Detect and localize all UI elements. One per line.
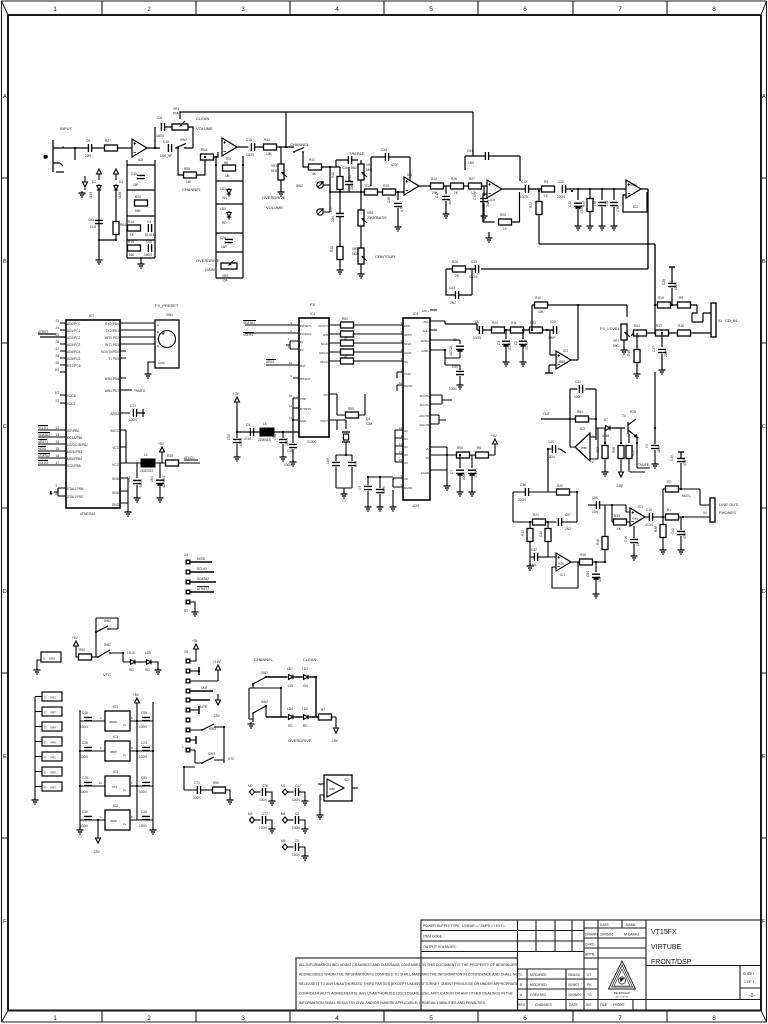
svg-text:4580: 4580: [110, 819, 117, 823]
capacitor C13: [469, 260, 479, 279]
wire node channel: [255, 146, 294, 148]
IC1a plus wire: [612, 505, 630, 512]
svg-text:C82: C82: [227, 434, 231, 440]
pot VR3 overdrive volume: [271, 147, 287, 196]
supply -15V X5: [213, 694, 221, 718]
svg-text:MOSI/PB3: MOSI/PB3: [67, 450, 82, 454]
svg-text:C40: C40: [548, 440, 554, 444]
capacitor C45: [131, 172, 145, 187]
svg-text:VDC7: VDC7: [67, 402, 76, 406]
svg-text:DL4148: DL4148: [145, 233, 156, 237]
codec left pin wires upper: [354, 325, 404, 391]
capacitor C9: [85, 139, 92, 158]
svg-text:12: 12: [289, 361, 293, 365]
title block: [421, 920, 761, 1011]
svg-text:22N: 22N: [85, 154, 92, 158]
svg-text:X1: X1: [718, 319, 722, 323]
svg-text:IC1: IC1: [113, 705, 118, 709]
IC IC2d box: [317, 775, 359, 819]
resistor R32 vertical: [521, 522, 533, 557]
svg-text:SW2: SW2: [261, 671, 268, 675]
svg-text:VDC6: VDC6: [67, 394, 76, 398]
svg-text:R14: R14: [128, 220, 134, 224]
svg-text:C5: C5: [295, 839, 299, 843]
svg-text:LD7: LD7: [287, 667, 293, 671]
connector X3: [184, 553, 216, 613]
svg-text:DATE: DATE: [569, 1003, 579, 1007]
svg-text:C41: C41: [575, 380, 581, 384]
capacitor C12: [520, 180, 529, 199]
svg-text:15: 15: [399, 450, 403, 454]
svg-text:AD4/PC4: AD4/PC4: [67, 350, 81, 354]
svg-text:1M: 1M: [225, 174, 230, 178]
svg-text:R33: R33: [614, 514, 620, 518]
svg-text:MCLK: MCLK: [320, 360, 328, 364]
svg-text:+15V: +15V: [213, 660, 221, 664]
svg-text:28: 28: [55, 354, 59, 358]
IC IC2c 4580: [100, 804, 133, 830]
svg-text:R9: R9: [679, 296, 683, 300]
resistor R43: [264, 138, 277, 156]
svg-text:47: 47: [344, 337, 348, 341]
svg-text:10A: 10A: [222, 279, 229, 283]
svg-text:R4: R4: [544, 180, 548, 184]
svg-text:R10: R10: [535, 296, 541, 300]
svg-text:C58: C58: [287, 449, 293, 453]
svg-text:BASS: BASS: [376, 215, 387, 220]
svg-text:R11: R11: [511, 321, 517, 325]
resistor R58 vertical: [596, 443, 609, 476]
capacitor C46: [144, 240, 152, 257]
svg-text:4580: 4580: [329, 787, 335, 791]
svg-text:APPR.: APPR.: [585, 953, 595, 957]
svg-text:A: A: [762, 94, 766, 100]
svg-text:-15V: -15V: [213, 714, 221, 718]
resistor R40 vertical: [331, 167, 343, 192]
svg-text:MODIFIED: MODIFIED: [530, 973, 547, 977]
capacitor C41 100P: [574, 380, 583, 399]
tbar pin7: [190, 706, 199, 714]
svg-text:FRONT: FRONT: [613, 1003, 625, 1007]
svg-text:100N: 100N: [139, 755, 147, 759]
svg-text:4580: 4580: [110, 750, 117, 754]
wire switch to R41: [303, 152, 309, 167]
pad M3: [248, 812, 260, 823]
svg-text:JUST LISTEN: JUST LISTEN: [616, 997, 629, 999]
DSP pin stubs: [290, 325, 340, 420]
svg-text:R15: R15: [128, 240, 134, 244]
wire main to IC2: [566, 188, 626, 190]
svg-text:C36: C36: [520, 483, 526, 487]
svg-text:C71: C71: [194, 781, 200, 785]
row wires: [80, 721, 153, 820]
capacitor C40b 470P: [671, 517, 687, 554]
svg-text:SW1: SW1: [49, 657, 56, 661]
svg-text:R40: R40: [331, 172, 335, 178]
svg-text:29: 29: [55, 361, 59, 365]
svg-text:10M: 10M: [366, 422, 373, 426]
svg-text:AINR-: AINR-: [421, 349, 429, 353]
capacitor C43 2N2: [449, 286, 459, 305]
svg-text:VR2: VR2: [50, 696, 56, 700]
svg-text:C56: C56: [592, 496, 598, 500]
svg-text:10N: 10N: [592, 510, 599, 514]
svg-text:R43: R43: [264, 138, 270, 142]
ground bar plus input: [545, 372, 553, 374]
svg-text:DGND: DGND: [404, 384, 412, 388]
svg-text:FX_LEVEL: FX_LEVEL: [600, 326, 621, 331]
resistor R49 to gnd: [582, 189, 594, 230]
svg-text:XTAL2 PB7: XTAL2 PB7: [67, 495, 84, 499]
svg-text:ATRST: ATRST: [38, 330, 48, 334]
svg-text:4580: 4580: [558, 360, 565, 364]
svg-text:C61: C61: [88, 218, 94, 222]
supply +5V block: [133, 693, 140, 721]
capacitor C20b 220P: [548, 320, 557, 340]
wire codec vd bracket: [368, 477, 393, 505]
frame column numbers bottom: [53, 1015, 716, 1022]
svg-text:AD3/PC3: AD3/PC3: [67, 343, 81, 347]
svg-text:C26: C26: [82, 741, 88, 745]
svg-text:D: D: [762, 589, 766, 595]
capacitor C26: [220, 236, 233, 249]
svg-text:LD3: LD3: [220, 187, 226, 191]
capacitor C47 1N5: [530, 548, 548, 567]
svg-text:C62: C62: [127, 476, 131, 482]
svg-text:100N: 100N: [292, 798, 300, 802]
IC7 right pin stubs: [120, 323, 132, 503]
svg-text:VR5: VR5: [50, 771, 56, 775]
capacitor C64 4u7: [150, 463, 166, 502]
svg-text:ARG2: ARG2: [110, 412, 119, 416]
svg-text:C9: C9: [86, 139, 90, 143]
svg-text:FX: FX: [310, 302, 315, 307]
resistor R35: [166, 454, 179, 466]
svg-text:B: B: [157, 330, 159, 334]
wire / C43 parallel loop: [446, 269, 475, 295]
svg-text:SW2: SW2: [180, 138, 187, 142]
wire IC5 out to C15: [237, 146, 248, 148]
svg-text:R41: R41: [309, 158, 315, 162]
resistor R19: [658, 296, 671, 308]
svg-text:+5V: +5V: [133, 693, 140, 697]
svg-text:AIN1 PD7: AIN1 PD7: [105, 389, 119, 393]
svg-text:NC: NC: [404, 445, 408, 449]
svg-text:5: 5: [429, 1015, 433, 1022]
svg-text:CKOUT: CKOUT: [318, 324, 328, 328]
svg-text:VCC: VCC: [112, 463, 119, 467]
svg-text:10/25: 10/25: [246, 153, 254, 157]
svg-text:REV: REV: [518, 1003, 526, 1007]
wire IC3b out: [571, 359, 578, 361]
resistor R5A: [201, 148, 214, 160]
connector G VR5: [35, 767, 62, 776]
svg-text:13: 13: [55, 433, 59, 437]
svg-text:R23: R23: [530, 321, 536, 325]
svg-text:L4: L4: [144, 453, 148, 457]
resistor R42 vertical: [330, 224, 344, 274]
svg-text:PHONES: PHONES: [719, 510, 736, 515]
svg-text:SW3: SW3: [209, 727, 216, 731]
svg-text:C16: C16: [141, 810, 147, 814]
pad M1: [281, 784, 293, 795]
resistor R64: [113, 222, 126, 235]
svg-text:C49: C49: [670, 455, 674, 461]
svg-text:V+: V+: [123, 753, 127, 757]
svg-text:R45: R45: [580, 553, 586, 557]
svg-text:VDD: VDD: [300, 397, 306, 401]
svg-text:C40: C40: [671, 528, 675, 534]
svg-text:470P: 470P: [391, 163, 398, 167]
svg-text:R48: R48: [627, 350, 631, 356]
svg-text:VCC: VCC: [112, 446, 119, 450]
svg-text:C77: C77: [262, 812, 268, 816]
svg-text:2: 2: [147, 6, 151, 13]
resistor R50c: [201, 781, 234, 804]
resistor R60 vertical: [626, 446, 635, 473]
IC IC7 ATMEGA8 body: [66, 314, 120, 516]
svg-text:C9: C9: [645, 444, 649, 448]
svg-text:OVERDRIVE: OVERDRIVE: [262, 195, 286, 200]
svg-text:100N: 100N: [139, 725, 147, 729]
svg-text:R36: R36: [654, 526, 658, 532]
svg-text:AOUTL: AOUTL: [420, 403, 430, 407]
svg-text:100N: 100N: [129, 418, 137, 422]
svg-text:ANL+: ANL+: [422, 309, 429, 313]
svg-text:IC3: IC3: [113, 735, 118, 739]
wire wiper to R34: [631, 333, 634, 336]
svg-text:C48: C48: [387, 197, 391, 203]
node TMUTE: [630, 443, 650, 472]
svg-text:R6: R6: [477, 446, 481, 450]
svg-text:15: 15: [289, 394, 293, 398]
svg-text:1C8: 1C8: [90, 225, 96, 229]
svg-text:R55: R55: [184, 167, 190, 171]
svg-text:R58: R58: [612, 447, 616, 453]
left bus: [80, 702, 153, 822]
svg-text:4580L: 4580L: [109, 720, 118, 724]
svg-text:IO: IO: [44, 155, 48, 159]
svg-text:C37: C37: [565, 513, 571, 517]
svg-text:TMUTG: TMUTG: [134, 389, 146, 393]
svg-text:21M/51S: 21M/51S: [258, 438, 271, 442]
svg-text:100N: 100N: [80, 790, 88, 794]
svg-text:R52: R52: [342, 317, 348, 321]
svg-text:A: A: [157, 323, 159, 327]
capacitor C81: [244, 423, 254, 441]
pot VR2 overdrive gain: [221, 260, 237, 283]
svg-text:ST: ST: [184, 609, 188, 613]
switch SW2f: [96, 632, 123, 658]
svg-text:SDATA2: SDATA2: [197, 577, 209, 581]
svg-text:SCLK2: SCLK2: [38, 461, 48, 465]
resistor R41: [309, 158, 322, 176]
svg-text:R5A: R5A: [201, 148, 208, 152]
svg-text:1: 1: [50, 491, 52, 495]
svg-text:OUTPUT VOLTAGES :: OUTPUT VOLTAGES :: [423, 945, 458, 949]
left bracket wires: [249, 684, 281, 722]
svg-text:100N: 100N: [193, 796, 201, 800]
svg-text:16: 16: [55, 454, 59, 458]
svg-text:220P: 220P: [664, 350, 668, 357]
svg-text:100N: 100N: [80, 824, 88, 828]
svg-text:SDATA2: SDATA2: [38, 454, 50, 458]
resistor R27 second: [469, 177, 482, 195]
node OUT X5: [190, 686, 213, 691]
svg-text:M0: M0: [248, 784, 253, 788]
switch SW2: [175, 138, 187, 149]
connector IO input jack: [44, 140, 64, 172]
svg-text:8N2: 8N2: [351, 166, 357, 170]
capacitor C9b 4n46: [645, 444, 661, 468]
svg-text:4220: 4220: [412, 504, 419, 508]
svg-text:CREATED: CREATED: [530, 993, 547, 997]
svg-text:E: E: [762, 754, 766, 760]
resistor R13: [365, 184, 378, 195]
ground cluster: [248, 722, 255, 728]
svg-text:C54: C54: [467, 149, 473, 153]
wire VR1 wiper to top rail: [180, 112, 473, 148]
svg-text:BEHRINGER: BEHRINGER: [614, 991, 630, 995]
svg-text:-15V: -15V: [93, 850, 101, 854]
svg-text:SW2: SW2: [261, 700, 268, 704]
svg-text:21M2015: 21M2015: [140, 469, 154, 473]
svg-text:RST: RST: [300, 364, 306, 368]
svg-text:C25: C25: [82, 776, 88, 780]
svg-text:Q1: Q1: [366, 417, 370, 421]
svg-text:A: A: [3, 94, 7, 100]
svg-text:+5V: +5V: [158, 442, 165, 446]
svg-text:CHKD: CHKD: [585, 943, 595, 947]
svg-text:VD: VD: [404, 477, 408, 481]
svg-text:VOLUME: VOLUME: [196, 126, 213, 131]
svg-text:V+: V+: [123, 788, 127, 792]
svg-text:R20: R20: [135, 195, 141, 199]
svg-text:VTC: VTC: [228, 757, 235, 761]
resistor R14: [128, 220, 141, 237]
resistor R46 vertical: [596, 505, 608, 562]
IC IC4 DSP body: [299, 312, 329, 444]
svg-text:13: 13: [289, 416, 293, 420]
capacitor C36a to gnd: [605, 189, 620, 230]
pad M5: [281, 839, 293, 850]
svg-text:R26: R26: [630, 410, 636, 414]
svg-text:C20: C20: [550, 320, 556, 324]
bracket VDD BYPASS: [292, 398, 294, 420]
svg-text:ANL-: ANL-: [423, 329, 429, 333]
crystal Q1: [336, 432, 352, 461]
svg-text:M5: M5: [281, 839, 286, 843]
resistor R11: [511, 321, 524, 333]
svg-text:SDATA1: SDATA1: [243, 321, 255, 325]
svg-text:CHANNEL: CHANNEL: [290, 142, 310, 147]
svg-text:FILE:: FILE:: [600, 1003, 608, 1007]
frame column numbers top: [53, 6, 716, 13]
IC IC1 4580L: [100, 705, 133, 731]
svg-text:R55: R55: [457, 446, 463, 450]
codec input network C6b C50: [445, 321, 449, 358]
svg-text:DIN: DIN: [323, 333, 328, 337]
svg-text:C6: C6: [475, 320, 479, 324]
wire bus 244: [539, 244, 655, 305]
svg-text:DATE: DATE: [600, 923, 610, 927]
wire to IC3: [396, 192, 405, 200]
capacitor C6 10/25: [473, 320, 483, 340]
svg-text:MOSI: MOSI: [197, 557, 205, 561]
svg-text:R46: R46: [596, 539, 600, 545]
ground SW1 COM: [145, 362, 156, 378]
svg-text:100N: 100N: [80, 725, 88, 729]
svg-text:470P: 470P: [683, 459, 687, 466]
pin8 tbar: [182, 736, 196, 749]
svg-text:R42: R42: [330, 246, 334, 252]
svg-text:47/25: 47/25: [525, 342, 529, 350]
svg-text:LD4: LD4: [287, 707, 293, 711]
capacitor C82: [227, 432, 243, 461]
ground VL bracket: [444, 470, 451, 490]
wires IC7 to SW1: [126, 323, 155, 351]
capacitor C58: [286, 420, 297, 466]
svg-text:C28: C28: [662, 279, 666, 285]
resistor R24: [492, 321, 505, 333]
svg-text:V+: V+: [123, 723, 127, 727]
svg-text:V1000: V1000: [307, 440, 316, 444]
supply arrows above diodes: [97, 169, 102, 180]
codec right pin names: [419, 309, 429, 475]
svg-text:IC3: IC3: [407, 173, 412, 177]
feedback R10 loop: [532, 296, 627, 360]
diode D2 4148: [89, 180, 101, 199]
svg-text:ADDRESSEES WHOM THE INFORMATIO: ADDRESSEES WHOM THE INFORMATION IS CONFI…: [299, 973, 521, 977]
svg-text:INT: INT: [586, 1003, 591, 1007]
feedback ladder rails: [127, 160, 155, 262]
svg-text:CHANNEL: CHANNEL: [254, 657, 274, 662]
svg-text:1M: 1M: [186, 180, 191, 184]
svg-text:20/05/00: 20/05/00: [568, 993, 581, 997]
svg-text:C17: C17: [295, 784, 301, 788]
svg-text:M1: M1: [281, 784, 286, 788]
ground input bias: [79, 188, 86, 197]
svg-text:TG: TG: [587, 993, 592, 997]
capacitor C17b: [292, 784, 309, 805]
capacitor C48 4,7P: [387, 197, 404, 231]
svg-text:T6: T6: [622, 414, 626, 418]
resistor R20b: [557, 484, 578, 522]
svg-text:100P: 100P: [574, 395, 581, 399]
svg-text:BYPASS: BYPASS: [300, 407, 311, 411]
wires resistor bank to codec: [354, 325, 404, 361]
svg-text:VR4: VR4: [50, 726, 56, 730]
svg-text:C55: C55: [141, 711, 147, 715]
svg-text:SCLK1: SCLK1: [243, 333, 253, 337]
svg-text:C10: C10: [82, 810, 88, 814]
resistor R27: [105, 139, 118, 151]
overdrive ladder rails: [216, 156, 243, 278]
svg-text:10: 10: [399, 426, 403, 430]
inductor L4: [140, 453, 155, 473]
svg-text:XTAL1 PB6: XTAL1 PB6: [67, 487, 84, 491]
svg-text:VOLUME: VOLUME: [266, 205, 283, 210]
capacitor C30 8N2: [336, 155, 358, 170]
switch SW2 channel: [293, 143, 304, 188]
resistor R15: [128, 240, 141, 257]
svg-text:R64: R64: [120, 223, 126, 227]
svg-text:VR6: VR6: [50, 741, 56, 745]
svg-text:VR1: VR1: [50, 756, 56, 760]
svg-text:IC2: IC2: [113, 804, 118, 808]
svg-text:VA: VA: [425, 456, 429, 460]
svg-text:FX_PRESET: FX_PRESET: [155, 303, 179, 308]
